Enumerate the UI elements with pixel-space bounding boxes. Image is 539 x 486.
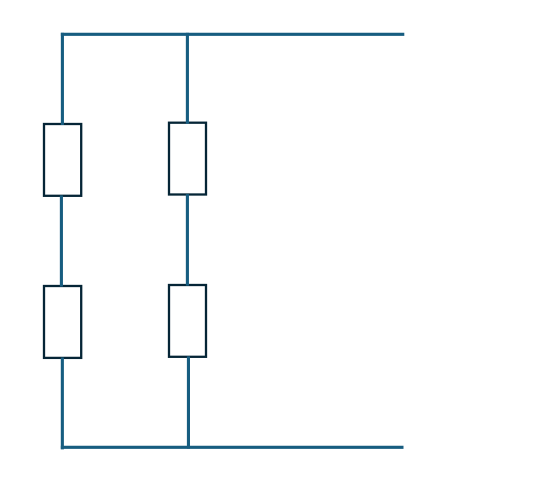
resistor R3	[169, 123, 206, 195]
wire left branch upper segment	[61, 33, 64, 125]
wire left branch middle segment	[60, 195, 63, 286]
wire middle branch lower segment	[187, 356, 190, 448]
wire top rail	[61, 33, 404, 36]
wire left branch lower segment	[61, 358, 64, 450]
wire middle branch middle segment	[186, 194, 189, 286]
resistor R1	[44, 124, 81, 196]
wire bottom rail	[61, 446, 404, 449]
resistor R4	[169, 285, 206, 357]
resistor R2	[44, 286, 81, 358]
wire middle branch upper segment	[186, 33, 189, 124]
